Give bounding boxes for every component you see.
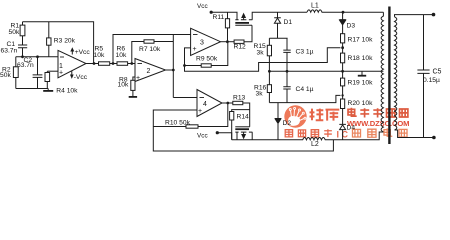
svg-text:D3: D3 [347,23,356,30]
svg-text:R12: R12 [234,44,247,51]
svg-text:R3 20k: R3 20k [54,37,76,44]
svg-text:Vcc: Vcc [197,133,208,140]
resistor R18 [341,53,345,63]
svg-text:R10 50k: R10 50k [165,120,191,127]
svg-text:2: 2 [147,68,151,75]
resistor R6 [117,62,128,66]
-Vcc tick op1 [71,71,73,75]
resistor R12 [234,40,244,43]
bus B [269,70,383,72]
svg-text:+: + [59,70,63,77]
diode D3 [339,12,346,34]
resistor R7 [144,40,154,43]
svg-text:R19 10k: R19 10k [348,80,374,87]
svg-text:10k: 10k [94,52,105,59]
ground on bus B [361,71,363,75]
svg-text:R18 10k: R18 10k [348,55,374,62]
svg-text:R9 50k: R9 50k [196,56,218,63]
svg-text:3: 3 [200,40,204,47]
svg-text:0.15µ: 0.15µ [423,77,440,84]
ground under R4 [47,89,49,91]
svg-text:R17 10k: R17 10k [348,37,374,44]
watermark bottom row [285,128,407,139]
svg-text:D4: D4 [347,125,356,132]
op2 output wire [166,69,174,71]
top wire left section [23,22,94,64]
op-amp U1 [58,50,86,77]
capacitor C4 [283,71,290,102]
resistor R2 [15,57,17,89]
transistor Q2 [237,132,252,140]
svg-text:D1: D1 [284,19,293,26]
resistor R3 [48,22,50,57]
svg-text:L2: L2 [311,141,319,148]
op4 minus wire [173,97,197,99]
watermark logo circle [284,105,306,127]
resistor R19 [342,71,344,99]
svg-text:10k: 10k [116,52,127,59]
svg-text:C5: C5 [433,69,442,76]
secondary bottom lead [395,130,434,138]
svg-text:+: + [193,46,197,53]
resistor R8 [131,80,135,90]
transformer secondary winding [395,17,397,130]
svg-text:R11: R11 [213,14,225,21]
wire op1 minus input [16,56,58,58]
diode D1 [274,12,281,38]
transistor Q1 [235,19,252,21]
svg-text:+Vcc: +Vcc [75,49,91,56]
resistor R1 [22,22,24,45]
resistor R15 [268,38,270,71]
svg-text:R13: R13 [233,95,246,102]
svg-text:D2: D2 [283,120,292,127]
watermark text dianzishichangwang [348,108,408,118]
transformer core [388,7,390,145]
resistor R13 [233,101,243,104]
diode D2 [275,103,282,140]
svg-text:R7 10k: R7 10k [139,46,161,53]
resistor R20 [341,99,345,109]
op-amp U4 [197,90,222,117]
svg-text:4: 4 [203,101,207,108]
capacitor C1 [18,45,27,57]
svg-text:3k: 3k [256,91,264,98]
inductor L1 [307,10,383,12]
top bar R15 C3 [269,37,287,39]
wire bottom left [16,88,48,90]
resistor R14 [232,110,250,140]
Vcc bottom wire [217,133,231,140]
svg-text:50k: 50k [9,29,20,36]
svg-text:-Vcc: -Vcc [74,74,88,81]
svg-text:50k: 50k [0,72,11,79]
svg-text:WWW.DZSC.COM: WWW.DZSC.COM [347,119,410,128]
secondary top lead [395,15,434,17]
svg-text:+: + [136,75,140,82]
bottom feedback bus [153,127,333,152]
bottom rail with L2 [232,132,384,140]
transformer T1 primary winding [381,12,383,132]
watermark group (drawn under circuit) [284,105,306,127]
op4 plus wire [153,110,197,127]
op3 output wire [221,41,235,43]
svg-text:+: + [198,108,202,115]
resistor R17 [341,34,345,43]
Vcc top rail [211,12,237,20]
Y bar under R16 C4 and wire to R19/R20 node [269,95,340,102]
watermark text 维库 [310,109,340,121]
ground under R8 [129,96,137,98]
svg-text:63.7n: 63.7n [1,48,18,55]
resistor R4 [46,71,48,88]
svg-text:63.7n: 63.7n [17,62,34,69]
wire node R5R6 to op3 minus [113,35,191,64]
op2 plus input wire [133,77,135,80]
resistor R16 [268,71,270,102]
bus A from R9 node to R17/R18 node [185,48,341,71]
resistor R11 [227,12,229,42]
svg-text:Vcc: Vcc [197,3,208,10]
svg-text:L1: L1 [311,3,319,10]
svg-text:10k: 10k [118,82,129,89]
resistor R10 [153,103,228,127]
op4 output wire [222,102,233,104]
op-amp U2 [135,59,166,82]
capacitor C5 [417,15,429,138]
+Vcc arrow op1 [71,51,73,55]
svg-text:R20 10k: R20 10k [348,100,374,107]
svg-text:C3 1µ: C3 1µ [296,49,314,56]
capacitor C3 [283,38,290,71]
circuit in dark strokes [13,7,434,152]
diode D4 [339,124,346,139]
vertical bus op2out [172,35,174,98]
capacitor C2 [33,57,43,89]
feedback loop R7 [132,42,174,64]
resistor R5 [99,62,110,66]
op1 output wire [86,63,135,65]
svg-text:R14: R14 [237,114,250,121]
svg-text:3k: 3k [257,50,265,57]
svg-text:C4 1µ: C4 1µ [296,86,314,93]
op-amp U3 [191,28,221,55]
svg-text:R4 10k: R4 10k [56,87,78,94]
op3 plus network wire [185,48,191,66]
resistor R9 [185,42,228,66]
